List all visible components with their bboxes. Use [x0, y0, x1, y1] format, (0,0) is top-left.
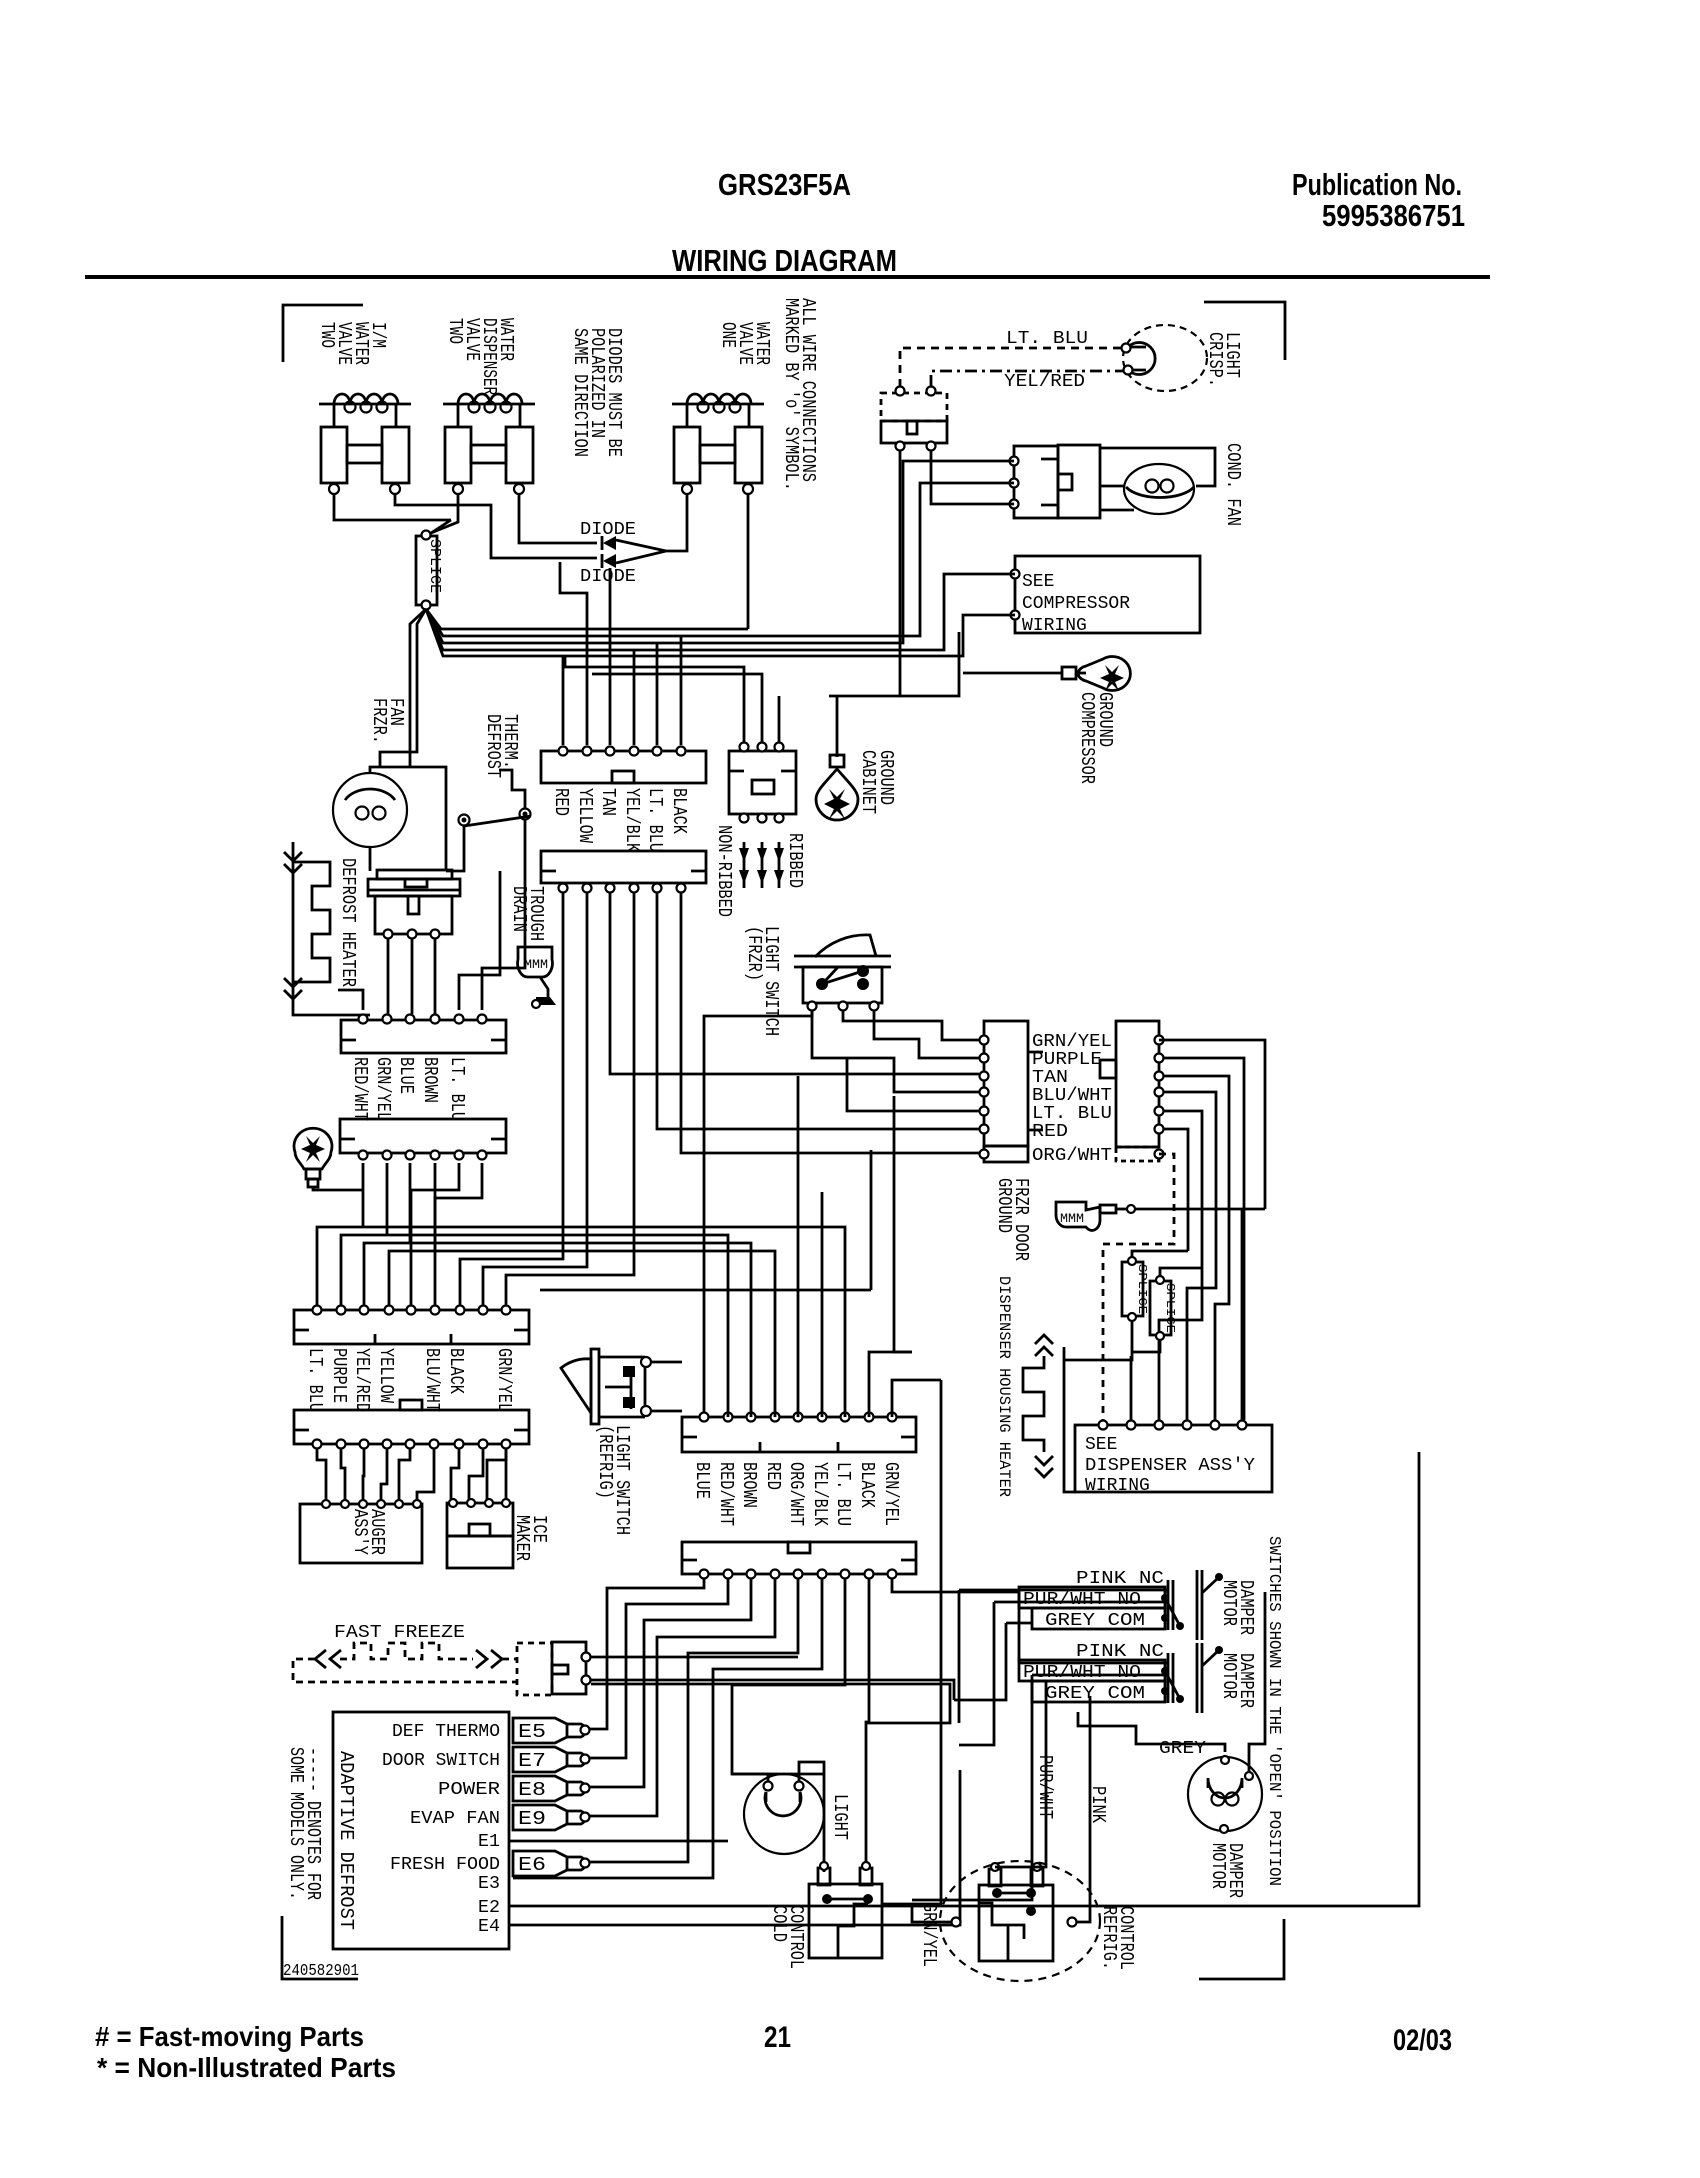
connector strip 1	[541, 751, 706, 783]
svg-text:DIODE: DIODE	[580, 567, 636, 587]
wire splice2 top link	[1160, 1268, 1202, 1276]
wire pur/wht drop	[995, 1681, 1046, 1867]
connector strip 6	[682, 1542, 916, 1574]
ground bulb mid-left	[294, 1128, 332, 1169]
svg-text:TAN: TAN	[1032, 1068, 1068, 1088]
ice maker box	[447, 1503, 513, 1536]
crisp light lamp	[1123, 325, 1207, 391]
wire lt-blu dashed	[900, 348, 1122, 387]
wire splice1 up	[1132, 1251, 1188, 1257]
svg-text:Publication No.: Publication No.	[1292, 167, 1462, 202]
svg-text:BLUE: BLUE	[691, 1462, 713, 1499]
svg-text:GROUND: GROUND	[875, 750, 897, 805]
wire s4R f4	[524, 1251, 775, 1417]
wire strip2 v2	[483, 893, 587, 1305]
svg-text:LIGHT SWITCH: LIGHT SWITCH	[760, 926, 782, 1036]
svg-text:21: 21	[764, 2021, 791, 2054]
svg-text:CONTROL: CONTROL	[1115, 1906, 1137, 1970]
wire stripA2 t1 up	[338, 990, 363, 1010]
wire lsf t1	[812, 1011, 979, 1092]
svg-text:SPLICE: SPLICE	[426, 539, 443, 593]
wire cond fan top	[1100, 448, 1215, 486]
svg-text:CONTROL: CONTROL	[785, 1905, 807, 1969]
wire disp t6 up	[1241, 1209, 1244, 1420]
svg-text:FAST FREEZE: FAST FREEZE	[334, 1623, 465, 1643]
cond fan relay terminal 3	[1010, 500, 1019, 509]
svg-text:E2: E2	[478, 1898, 500, 1918]
svg-text:EVAP FAN: EVAP FAN	[410, 1809, 500, 1829]
crisper switch terminal 3	[896, 442, 905, 451]
svg-text:ORG/WHT: ORG/WHT	[1032, 1146, 1112, 1166]
wire defrost therm down	[446, 826, 464, 871]
svg-text:AUGER: AUGER	[366, 1509, 388, 1555]
cond fan motor	[1124, 464, 1194, 514]
svg-text:SPLICE: SPLICE	[1163, 1283, 1177, 1333]
wire strip1 feed 5	[656, 643, 659, 745]
wire s6 t4	[590, 1579, 775, 1816]
page corner mark top-right	[1204, 302, 1285, 360]
adaptive defrost board	[333, 1712, 509, 1949]
svg-text:I/M: I/M	[367, 322, 389, 348]
see dispenser box	[1075, 1425, 1272, 1492]
fast freeze switch dashed	[517, 1643, 552, 1695]
svg-text:SPLICE: SPLICE	[1135, 1264, 1149, 1314]
svg-text:LT. BLU: LT. BLU	[1006, 329, 1088, 349]
drain trough tail	[540, 977, 548, 997]
3-pin bottom terminals	[740, 814, 749, 823]
cond fan relay box	[1014, 446, 1058, 518]
svg-text:BLU/WHT: BLU/WHT	[1032, 1086, 1112, 1106]
wire stair 2	[341, 1163, 553, 1305]
stripA2 terminals	[359, 1015, 368, 1024]
svg-text:PURPLE: PURPLE	[1032, 1050, 1102, 1070]
svg-text:E5: E5	[518, 1721, 546, 1743]
svg-text:E4: E4	[478, 1917, 500, 1937]
svg-text:DIODES MUST BE: DIODES MUST BE	[603, 328, 625, 457]
svg-text:THERM.: THERM.	[499, 714, 521, 769]
wire s6 t1	[590, 1579, 704, 1729]
wire s4R f2	[553, 1235, 728, 1417]
ribbed arrow 2	[757, 848, 767, 862]
compressor box terminal 1	[1011, 570, 1020, 579]
drain trough clip	[518, 947, 553, 977]
wire stripA2 t6 up	[482, 820, 525, 1010]
crisper switch terminal 4	[927, 442, 936, 451]
solenoid coil water valve one	[672, 403, 764, 406]
wire strip2 v1	[460, 893, 563, 1305]
wire dispenser heater right	[1064, 1347, 1075, 1492]
wire stair 3	[364, 1163, 512, 1305]
svg-text:DEFROST HEATER: DEFROST HEATER	[337, 858, 359, 987]
wire joint to splice	[431, 520, 451, 533]
wire disp t2 up	[1130, 1356, 1133, 1420]
crisper light switch box	[881, 421, 947, 443]
svg-text:BROWN: BROWN	[738, 1462, 760, 1508]
wire rb1	[1159, 1040, 1265, 1209]
wire damper f3	[954, 1623, 1032, 1700]
svg-text:SWITCHES SHOWN IN THE 'OPEN' P: SWITCHES SHOWN IN THE 'OPEN' POSITION	[1264, 1536, 1283, 1886]
wire s5 a4	[381, 1449, 387, 1499]
wire strip2 v5	[657, 893, 979, 1129]
wire frzr fan loop	[370, 767, 446, 870]
wire damper f2	[959, 1602, 1168, 1745]
splice terminal top	[422, 531, 431, 540]
connector strip 2	[541, 851, 706, 883]
splice mid 2 terminals	[1156, 1276, 1164, 1284]
defrost timer top bar	[377, 870, 452, 879]
svg-text:E6: E6	[518, 1854, 546, 1876]
light switch refrig	[561, 1359, 591, 1413]
wire splice fan 6	[380, 609, 426, 767]
wire s5 a1	[317, 1449, 326, 1499]
svg-text:5995386751: 5995386751	[1322, 198, 1465, 233]
splice mid 1 box	[1122, 1262, 1143, 1316]
defrost therm contact arm	[464, 816, 531, 826]
svg-text:----- DENOTES FOR: ----- DENOTES FOR	[302, 1747, 324, 1900]
wire lsf t2	[843, 1011, 979, 1040]
wire cond fan bottom	[1100, 509, 1134, 512]
refrig control box	[979, 1885, 1053, 1961]
ribbed arrow 3	[774, 848, 784, 862]
wire stair 5	[411, 1163, 459, 1305]
svg-text:BLACK: BLACK	[668, 788, 690, 834]
title rule	[85, 275, 1490, 279]
svg-text:LT. BLU: LT. BLU	[644, 788, 666, 852]
wire damper right	[1249, 1592, 1265, 1772]
svg-text:RIBBED: RIBBED	[784, 833, 806, 888]
compressor ground lug	[1078, 656, 1130, 690]
svg-text:E1: E1	[478, 1832, 500, 1852]
wire diode output to valve3	[666, 494, 687, 551]
defrost therm terminal 2	[520, 809, 531, 820]
wire s5 i4	[505, 1449, 508, 1499]
wire s6 t5	[590, 1579, 798, 1862]
cold control dots	[822, 1894, 832, 1904]
svg-text:GRN/YEL: GRN/YEL	[493, 1348, 515, 1412]
svg-text:GROUND: GROUND	[1094, 692, 1116, 747]
svg-text:DIODE: DIODE	[580, 520, 636, 540]
svg-text:TAN: TAN	[597, 788, 619, 816]
dispenser box terminals	[1099, 1421, 1108, 1430]
svg-text:ICE: ICE	[528, 1515, 550, 1543]
wire valve2-left to splice	[431, 494, 458, 533]
spade E8	[513, 1776, 567, 1801]
svg-text:DEF THERMO: DEF THERMO	[392, 1722, 500, 1742]
solenoid coil water dispenser valve two	[443, 403, 535, 406]
svg-text:GRS23F5A: GRS23F5A	[718, 167, 851, 202]
frzr fan motor	[333, 773, 407, 847]
spade E9	[513, 1805, 567, 1830]
3-pin top terminals	[740, 743, 749, 752]
svg-text:BLU/WHT: BLU/WHT	[421, 1348, 443, 1412]
splice box top-left	[416, 536, 437, 605]
wire splice fan 4	[426, 609, 1015, 656]
svg-text:E7: E7	[518, 1750, 546, 1772]
svg-text:LIGHT SWITCH: LIGHT SWITCH	[611, 1425, 633, 1535]
compressor box terminal 2	[1011, 611, 1020, 620]
wire strip1 feed 2	[560, 562, 587, 745]
svg-text:GRN/YEL: GRN/YEL	[880, 1462, 902, 1526]
refrig control posts	[989, 1869, 1001, 1886]
wire crisper sw left down	[829, 450, 900, 696]
svg-text:# = Fast-moving Parts: # = Fast-moving Parts	[95, 2021, 364, 2052]
wire lsf t3	[874, 1011, 979, 1058]
light switch frzr terminals	[808, 1002, 817, 1011]
wire damper f5	[912, 1675, 1168, 1900]
svg-text:GREY: GREY	[1159, 1739, 1206, 1759]
wire E1 row	[509, 1840, 728, 1843]
wire E2 row	[509, 1452, 1419, 1906]
diode D1 symbol	[601, 536, 604, 550]
see compressor wiring box	[1015, 556, 1200, 633]
svg-text:YEL/RED: YEL/RED	[1004, 372, 1085, 392]
fast freeze arrow left	[315, 1650, 341, 1668]
defrost timer body	[375, 896, 452, 934]
svg-text:* = Non-Illustrated Parts: * = Non-Illustrated Parts	[97, 2052, 396, 2083]
wire valve1-left to splice	[334, 494, 451, 520]
wire lsf extra	[847, 1058, 979, 1111]
dispenser heater chevron bottom	[1035, 1456, 1053, 1477]
wire s5 i2	[469, 1449, 483, 1499]
svg-text:PURPLE: PURPLE	[328, 1348, 350, 1403]
diode D2 symbol	[601, 554, 604, 568]
svg-text:WIRING: WIRING	[1022, 616, 1087, 636]
svg-text:GRN/YEL: GRN/YEL	[372, 1057, 394, 1121]
wire 3pin feed 1	[565, 656, 744, 745]
svg-text:GREY COM: GREY COM	[1045, 1684, 1145, 1704]
svg-text:E9: E9	[518, 1808, 546, 1830]
svg-text:RED/WHT: RED/WHT	[349, 1057, 371, 1121]
ice maker terminals	[449, 1499, 457, 1507]
right block terminals	[1155, 1036, 1164, 1045]
svg-text:BLACK: BLACK	[445, 1348, 467, 1394]
svg-text:RED/WHT: RED/WHT	[715, 1462, 737, 1526]
strip4 terminals	[313, 1306, 322, 1315]
wire s4R f6	[821, 1192, 824, 1417]
wire strip2 v3	[610, 893, 979, 1074]
wire stair 6	[435, 1163, 482, 1305]
3-pin connector	[729, 751, 796, 814]
wire strip2 v6	[681, 893, 979, 1153]
svg-text:DISPENSER ASS'Y: DISPENSER ASS'Y	[1085, 1456, 1255, 1476]
wire s5 i1	[451, 1449, 459, 1499]
wire blu/wht long down	[894, 1096, 912, 1352]
wire diode output chevron	[616, 540, 666, 563]
wire cabinet ground up	[837, 632, 959, 757]
wire valve2-right to diode1	[519, 494, 597, 543]
wire stripA2 t5 up	[459, 871, 500, 1010]
defrost heater element	[293, 862, 330, 982]
svg-text:FRZR DOOR: FRZR DOOR	[1010, 1178, 1032, 1261]
wire valve1-right to diode2	[395, 494, 597, 558]
wire s6 t7	[732, 1579, 845, 1774]
wire splice fan 2	[426, 461, 1014, 643]
svg-text:YEL/RED: YEL/RED	[351, 1348, 373, 1412]
defrost heater chevron bottom	[284, 978, 302, 999]
wire compressor ground	[963, 672, 1062, 675]
svg-text:BLUE: BLUE	[395, 1057, 417, 1094]
wire rb7 dashed	[1103, 1154, 1174, 1420]
wire 3pin feed 2	[592, 674, 762, 745]
svg-text:LT. BLU: LT. BLU	[1032, 1104, 1112, 1124]
svg-text:BROWN: BROWN	[419, 1057, 441, 1103]
wire stair 4	[389, 1163, 524, 1305]
wire lsf com down	[704, 1011, 812, 1412]
wire valve3-right down	[747, 494, 750, 629]
splice mid 2 box	[1150, 1281, 1171, 1335]
wire timer to stripA2	[388, 938, 435, 1014]
svg-text:YELLOW: YELLOW	[375, 1348, 397, 1403]
svg-text:DISPENSER HOUSING HEATER: DISPENSER HOUSING HEATER	[995, 1276, 1013, 1497]
wire rb3	[1164, 1076, 1229, 1420]
svg-text:ADAPTIVE DEFROST: ADAPTIVE DEFROST	[335, 1751, 357, 1930]
spade E6	[513, 1851, 567, 1876]
wire crisper sw right to relay	[931, 450, 1014, 504]
strip6 terminals	[700, 1570, 709, 1579]
wire s4R f8	[869, 1352, 912, 1417]
page corner mark bottom-right	[1199, 1919, 1284, 1979]
strip3 terminals	[359, 1151, 368, 1160]
wire s5 a3	[363, 1449, 364, 1499]
svg-text:DAMPER: DAMPER	[1235, 1653, 1257, 1708]
connector right GRN/YEL block	[1116, 1021, 1159, 1147]
svg-text:WIRING DIAGRAM: WIRING DIAGRAM	[672, 243, 897, 278]
wire s6 t3	[590, 1579, 751, 1787]
defrost therm terminal 1	[459, 815, 470, 826]
wire grn/yel drop	[912, 1380, 941, 1904]
crisper switch terminal 2	[927, 387, 936, 396]
defrost heater chevron top	[284, 852, 302, 873]
svg-text:YEL/BLK: YEL/BLK	[621, 788, 643, 852]
svg-text:LIGHT: LIGHT	[829, 1794, 851, 1840]
connector left GRN/YEL block	[984, 1021, 1028, 1146]
connector strip 4R	[682, 1417, 916, 1452]
auger assy box	[300, 1504, 422, 1563]
svg-text:E8: E8	[518, 1779, 546, 1801]
wire stair 1	[317, 1163, 579, 1305]
strip1 terminals	[559, 747, 568, 756]
dispenser heater element	[1023, 1356, 1044, 1452]
svg-text:WATER: WATER	[495, 318, 517, 361]
connector strip 4	[294, 1310, 529, 1344]
wire s4R f7	[579, 1227, 845, 1417]
strip5 terminals	[313, 1440, 322, 1449]
wire ff t2	[591, 1680, 954, 1700]
svg-text:RED: RED	[1032, 1122, 1068, 1142]
light switch frzr	[794, 956, 891, 967]
left block terminals	[980, 1036, 989, 1045]
damper motor terminals	[1221, 1756, 1229, 1764]
page corner mark bottom-left	[282, 1916, 358, 1979]
spade E7	[513, 1747, 567, 1772]
svg-text:240582901: 240582901	[283, 1962, 359, 1981]
wire splice fan 0	[426, 609, 748, 629]
svg-text:E3: E3	[478, 1874, 500, 1894]
svg-text:RED: RED	[762, 1462, 784, 1490]
page corner mark top-left	[283, 305, 363, 362]
connector strip A2	[341, 1020, 506, 1053]
svg-text:COMPRESSOR: COMPRESSOR	[1022, 594, 1130, 614]
ribbed arrow 1	[739, 848, 749, 862]
svg-text:NON-RIBBED: NON-RIBBED	[713, 825, 735, 917]
wire strip1 feed 1	[562, 656, 565, 745]
svg-text:LT. BLU: LT. BLU	[832, 1462, 854, 1526]
damper motor bottom	[1188, 1757, 1262, 1831]
svg-text:TROUGH: TROUGH	[525, 886, 547, 941]
wire s4R f3	[512, 1243, 751, 1417]
svg-text:02/03: 02/03	[1393, 2024, 1452, 2057]
wire rb6	[1164, 1129, 1188, 1251]
wire yel/red dashed	[931, 371, 1124, 387]
wire strip1 feed 6	[680, 636, 683, 745]
wire rb5	[1159, 1111, 1202, 1420]
svg-text:MMM: MMM	[524, 957, 548, 972]
defrost timer wide bar	[368, 879, 460, 896]
cabinet ground lug	[816, 769, 858, 820]
solenoid coil I/M water valve two	[319, 403, 411, 406]
svg-text:BLACK: BLACK	[856, 1462, 878, 1508]
fast freeze arrow right	[476, 1650, 502, 1668]
svg-text:FRESH FOOD: FRESH FOOD	[390, 1855, 500, 1875]
wire s4R f9	[892, 1380, 941, 1417]
wire frzr door ground	[1135, 1208, 1265, 1211]
wire rb4	[1164, 1092, 1216, 1420]
frzr door ground clip	[1056, 1202, 1100, 1230]
wire s5 a6	[417, 1449, 434, 1499]
wire rb2	[1164, 1058, 1244, 1420]
wire s6 t2	[590, 1579, 728, 1758]
refrig control side terminals	[952, 1918, 961, 1927]
splice mid 1 terminals	[1128, 1257, 1136, 1265]
wire 3pin feed 3	[778, 696, 781, 745]
crisp light terminal 1	[1122, 344, 1131, 353]
svg-text:WATER: WATER	[751, 322, 773, 365]
wire light t2	[799, 1762, 824, 1872]
cold control posts	[818, 1868, 830, 1885]
wire s5 a2	[341, 1449, 345, 1499]
wire ff t2b	[591, 1684, 950, 1723]
svg-text:COND. FAN: COND. FAN	[1222, 443, 1244, 526]
wire s4R f5	[797, 1076, 800, 1417]
wire s5 a5	[399, 1449, 410, 1499]
light terminals	[764, 1782, 773, 1791]
wire refrig left	[882, 1904, 951, 1922]
crisp light terminal 2	[1124, 366, 1133, 375]
wire splice fan 3	[426, 574, 1015, 650]
cold control box	[809, 1884, 882, 1958]
refrig control ellipse	[940, 1861, 1100, 1981]
fast freeze switch terminals	[582, 1653, 591, 1662]
svg-text:DOOR SWITCH: DOOR SWITCH	[382, 1751, 500, 1771]
svg-text:GRN/YEL: GRN/YEL	[918, 1903, 940, 1967]
svg-text:ORG/WHT: ORG/WHT	[785, 1462, 807, 1526]
wire ff t1	[591, 1656, 798, 1659]
fast freeze wave	[340, 1643, 473, 1659]
svg-text:LIGHT: LIGHT	[1221, 332, 1243, 378]
wire defrost therm step	[499, 770, 525, 808]
splice terminal bottom	[422, 601, 431, 610]
svg-text:SEE: SEE	[1085, 1435, 1117, 1455]
wire long run mid	[540, 1150, 871, 1290]
wire damper f4	[1019, 1592, 1168, 1663]
frzr door ground link	[1100, 1205, 1116, 1213]
svg-text:GRN/YEL: GRN/YEL	[1032, 1032, 1112, 1052]
wire strip1 feed 3	[609, 568, 612, 745]
crisper switch terminal 1	[896, 387, 905, 396]
wire pink drop	[1089, 1696, 1092, 1830]
strip4R terminals	[700, 1413, 709, 1422]
svg-text:FAN: FAN	[385, 698, 407, 726]
